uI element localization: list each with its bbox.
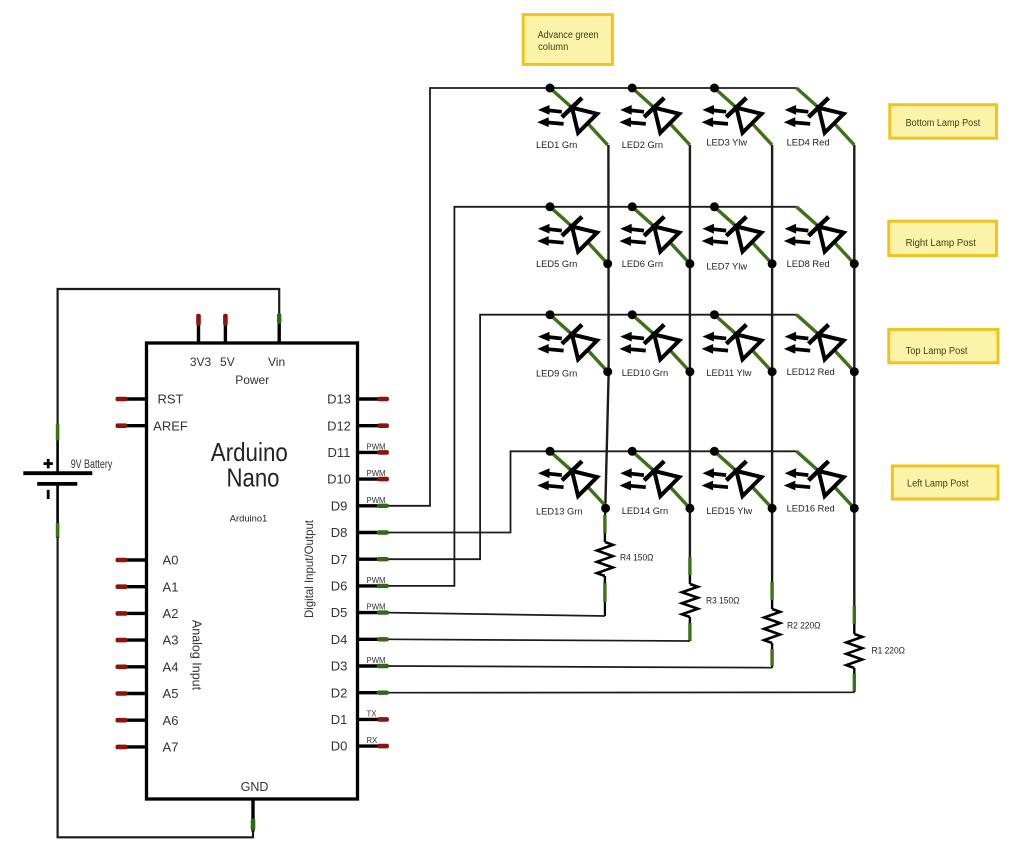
svg-text:Top Lamp Post: Top Lamp Post	[906, 346, 968, 357]
pin 5V	[220, 314, 235, 369]
svg-text:D1: D1	[331, 712, 348, 727]
node row2 anode joint col4	[850, 259, 859, 268]
pin GND	[241, 780, 269, 832]
svg-text:A5: A5	[163, 686, 179, 701]
svg-text:PWM: PWM	[367, 576, 386, 585]
pin D3	[331, 656, 389, 674]
pin D12	[327, 418, 389, 433]
node row4 tap col2	[628, 447, 637, 456]
LED2 Grn	[619, 88, 690, 145]
svg-text:LED7 Ylw: LED7 Ylw	[706, 262, 747, 272]
svg-text:A0: A0	[163, 553, 179, 568]
pin A1	[116, 579, 179, 594]
svg-text:LED15 Ylw: LED15 Ylw	[706, 506, 752, 516]
pin A6	[116, 713, 179, 728]
svg-text:Digital Input/Output: Digital Input/Output	[302, 519, 316, 618]
pin A3	[116, 633, 179, 648]
svg-text:LED8 Red: LED8 Red	[787, 259, 830, 269]
svg-text:R1 220Ω: R1 220Ω	[872, 646, 906, 657]
resistor R2 220Ω	[764, 582, 780, 668]
pin D6	[331, 576, 389, 594]
svg-text:3V3: 3V3	[190, 355, 212, 369]
svg-text:Right Lamp Post: Right Lamp Post	[906, 238, 977, 249]
pin 3V3	[190, 314, 212, 369]
wire battery + to Vin	[58, 289, 280, 425]
LED3 Ylw	[702, 88, 773, 145]
svg-text:RST: RST	[158, 392, 184, 407]
wire D9 to LED row 1	[389, 88, 797, 506]
svg-text:LED4 Red: LED4 Red	[787, 137, 830, 147]
wire green column 2 vertical	[689, 145, 691, 559]
node row4 tap col1	[546, 447, 555, 456]
node row3 anode joint col4	[850, 367, 859, 376]
LED14 Grn	[619, 451, 690, 508]
svg-text:LED2 Grn: LED2 Grn	[622, 140, 663, 150]
note Bottom Lamp Post	[890, 105, 997, 139]
svg-text:column: column	[538, 42, 568, 53]
svg-text:9V Battery: 9V Battery	[71, 459, 113, 471]
pin A0	[116, 553, 179, 568]
pin A2	[116, 606, 179, 621]
pin Vin	[268, 313, 285, 369]
pin D4	[331, 632, 389, 647]
node row4 anode joint col2	[685, 504, 694, 513]
svg-text:D11: D11	[328, 445, 351, 460]
svg-text:D6: D6	[331, 579, 348, 594]
LED7 Ylw	[702, 207, 773, 264]
node row4 tap col3	[710, 447, 719, 456]
svg-text:LED10 Grn: LED10 Grn	[622, 368, 669, 378]
wire battery - to GND	[58, 537, 253, 837]
svg-text:D8: D8	[331, 525, 348, 540]
svg-text:A2: A2	[163, 606, 179, 621]
svg-text:LED9 Grn: LED9 Grn	[536, 369, 577, 379]
LED1 Grn	[537, 88, 608, 145]
pin D13	[327, 392, 389, 407]
note Right Lamp Post	[889, 221, 997, 255]
resistor R3 150Ω	[682, 557, 698, 641]
pin AREF	[116, 418, 188, 433]
pin D5	[331, 603, 389, 621]
svg-text:Bottom Lamp Post: Bottom Lamp Post	[906, 118, 981, 129]
pin D11	[328, 442, 389, 460]
wire R1 to D2	[389, 691, 855, 693]
node row3 tap col3	[710, 310, 719, 319]
wire D6 to LED row 2	[389, 207, 797, 586]
pin RST	[116, 392, 184, 407]
svg-text:Power: Power	[235, 373, 269, 387]
LED5 Grn	[537, 207, 608, 264]
LED9 Grn	[537, 315, 608, 372]
node row2 anode joint col2	[685, 259, 694, 268]
wire R2 to D3	[389, 666, 773, 668]
op-amp/ic body: Arduino Nano U1	[147, 343, 358, 799]
node row3 anode joint col2	[685, 367, 694, 376]
pin D1	[331, 709, 389, 727]
LED10 Grn	[619, 315, 690, 372]
node row2 anode joint col3	[768, 259, 777, 268]
wire green column 1 vertical	[605, 145, 609, 517]
pin A7	[116, 740, 179, 755]
svg-text:D13: D13	[327, 392, 351, 407]
note Advance green column	[523, 15, 612, 65]
svg-text:R3 150Ω: R3 150Ω	[706, 596, 740, 607]
pin D7	[331, 552, 389, 567]
svg-text:Nano: Nano	[227, 463, 280, 493]
svg-text:LED16 Red: LED16 Red	[787, 504, 835, 514]
svg-text:A6: A6	[163, 713, 179, 728]
svg-text:Left Lamp Post: Left Lamp Post	[907, 479, 969, 490]
svg-text:Analog Input: Analog Input	[190, 620, 204, 691]
svg-text:D7: D7	[331, 552, 348, 567]
svg-text:A1: A1	[163, 579, 179, 594]
wire yellow column 3 vertical	[771, 145, 773, 584]
node row4 anode joint col3	[768, 504, 777, 513]
svg-text:D5: D5	[331, 605, 348, 620]
pin A5	[116, 686, 179, 701]
node row2 tap col1	[546, 202, 555, 211]
battery BAT1 9V	[23, 424, 92, 538]
svg-text:PWM: PWM	[367, 442, 386, 451]
node row2 anode joint col1	[603, 259, 612, 268]
pin D8	[331, 525, 389, 540]
pin D9	[331, 496, 389, 514]
svg-text:Advance green: Advance green	[538, 30, 599, 41]
pin A4	[116, 659, 179, 674]
svg-text:TX: TX	[367, 709, 378, 718]
node row3 anode joint col3	[768, 367, 777, 376]
svg-text:A4: A4	[163, 659, 179, 674]
svg-text:D3: D3	[331, 659, 348, 674]
svg-text:A7: A7	[163, 740, 179, 755]
svg-text:LED14 Grn: LED14 Grn	[622, 506, 669, 516]
node row3 tap col1	[546, 310, 555, 319]
svg-text:AREF: AREF	[153, 418, 188, 433]
wire R3 to D4	[389, 639, 690, 641]
svg-text:RX: RX	[367, 736, 379, 745]
node row4 anode joint col4	[850, 504, 859, 513]
LED15 Ylw	[702, 451, 773, 508]
node row2 tap col3	[710, 202, 719, 211]
svg-text:Arduino1: Arduino1	[230, 514, 268, 525]
note Top Lamp Post	[889, 329, 998, 362]
note Left Lamp Post	[892, 466, 998, 499]
svg-text:GND: GND	[241, 780, 269, 794]
LED4 Red	[784, 88, 855, 145]
node row3 tap col2	[628, 310, 637, 319]
svg-text:PWM: PWM	[367, 469, 386, 478]
svg-text:PWM: PWM	[367, 656, 386, 665]
LED13 Grn	[537, 451, 608, 508]
node row4 anode joint col1	[601, 504, 610, 513]
node row1 tap col1	[546, 84, 555, 93]
svg-text:LED6 Grn: LED6 Grn	[622, 259, 663, 269]
svg-text:D2: D2	[331, 685, 348, 700]
wire red column 4 vertical	[853, 145, 855, 608]
svg-text:D9: D9	[331, 498, 348, 513]
wire D8 to LED row 4	[389, 451, 797, 532]
wire R4 to D5	[389, 613, 605, 616]
svg-text:Vin: Vin	[268, 355, 285, 369]
pin D2	[331, 685, 389, 700]
svg-text:LED3 Ylw: LED3 Ylw	[706, 137, 747, 147]
node row1 tap col3	[710, 84, 719, 93]
pin D0	[331, 736, 389, 754]
svg-text:LED13 Grn: LED13 Grn	[536, 507, 583, 517]
svg-text:LED5 Grn: LED5 Grn	[536, 259, 577, 269]
svg-text:5V: 5V	[220, 355, 235, 369]
pin D10	[327, 469, 389, 487]
node row2 tap col2	[628, 202, 637, 211]
svg-text:LED1 Grn: LED1 Grn	[536, 140, 577, 150]
svg-text:D12: D12	[327, 418, 351, 433]
LED16 Red	[784, 451, 855, 508]
node row3 anode joint col1	[603, 367, 612, 376]
LED12 Red	[784, 315, 855, 372]
svg-text:LED11 Ylw: LED11 Ylw	[706, 368, 751, 378]
svg-text:PWM: PWM	[367, 496, 386, 505]
svg-text:D0: D0	[331, 739, 348, 754]
node row1 tap col2	[628, 84, 637, 93]
LED8 Red	[784, 207, 855, 264]
svg-text:D4: D4	[331, 632, 348, 647]
svg-text:PWM: PWM	[367, 603, 386, 612]
resistor R4 150Ω	[597, 515, 613, 616]
wire D7 to LED row 3	[389, 315, 797, 560]
svg-text:R2 220Ω: R2 220Ω	[787, 620, 821, 631]
svg-text:LED12 Red: LED12 Red	[787, 367, 835, 377]
svg-text:R4 150Ω: R4 150Ω	[620, 553, 654, 564]
svg-text:D10: D10	[327, 472, 351, 487]
svg-text:A3: A3	[163, 633, 179, 648]
LED6 Grn	[619, 207, 690, 264]
resistor R1 220Ω	[846, 606, 862, 692]
LED11 Ylw	[702, 315, 773, 372]
